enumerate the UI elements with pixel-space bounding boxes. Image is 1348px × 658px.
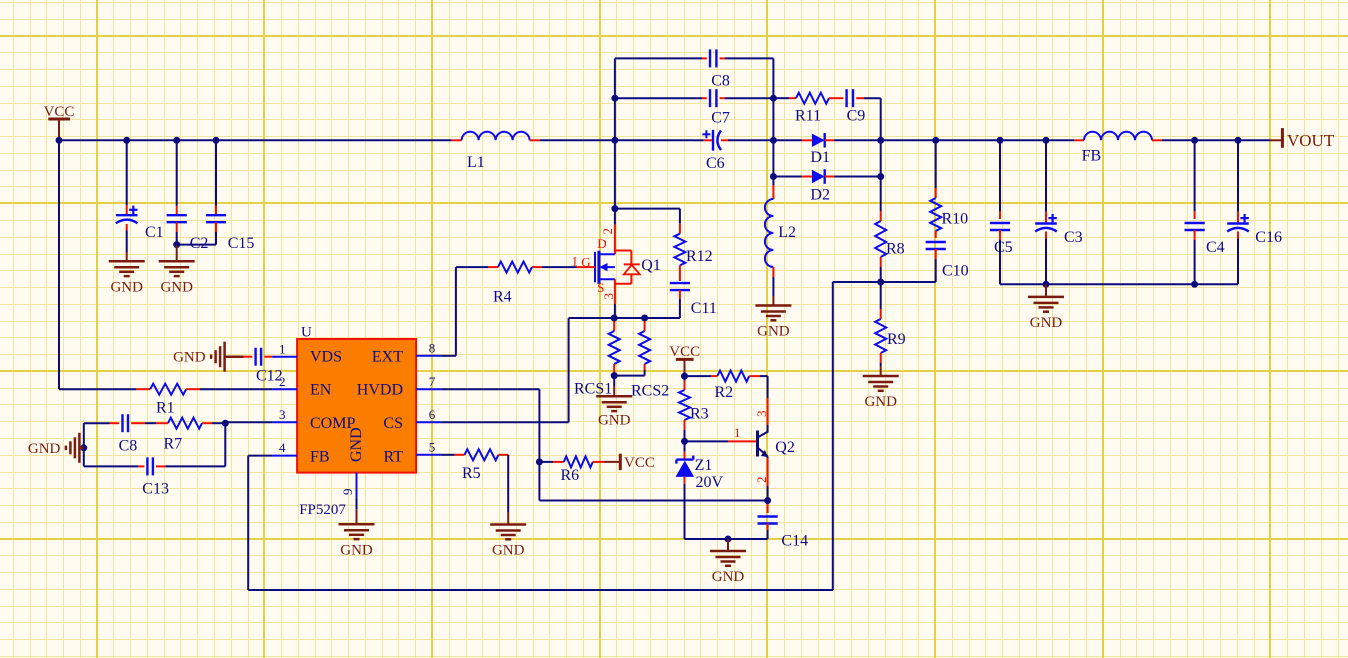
- wire R11 left stub: [789, 97, 796, 99]
- wire rail D1 node to R10: [881, 139, 936, 141]
- node D1 cathode: [877, 137, 884, 144]
- capacitor C3: [1035, 214, 1082, 246]
- resistor R3: [679, 390, 709, 423]
- wire C10 bottom pin: [935, 249, 937, 282]
- ground GND C1: [109, 252, 145, 295]
- svg-text:3: 3: [279, 407, 286, 422]
- wire drain to R12: [615, 209, 680, 224]
- svg-text:3: 3: [601, 293, 616, 300]
- wire C7 row right: [725, 97, 773, 99]
- ground GND L2: [755, 296, 791, 340]
- svg-text:GND: GND: [160, 279, 193, 295]
- node C2 top: [173, 137, 180, 144]
- node VCC R2 R3: [681, 373, 688, 380]
- svg-text:EN: EN: [310, 382, 332, 399]
- wire R4 to gate: [542, 266, 577, 268]
- power VOUT: [1270, 128, 1335, 150]
- ic pin 4 FB: [272, 440, 297, 455]
- wire Q1 gate stub: [577, 266, 596, 268]
- wire L1 to Q1 drain node: [540, 139, 615, 141]
- wire C11 bottom pin: [645, 290, 680, 318]
- ic pin 5 RT: [416, 439, 441, 454]
- node COMP: [222, 420, 229, 427]
- wire rail C4 to C16: [1195, 139, 1238, 141]
- diode D1: [810, 133, 830, 166]
- wire R7 right stub: [202, 422, 225, 424]
- svg-text:C7: C7: [711, 110, 730, 127]
- ic pin 3 COMP: [272, 407, 297, 422]
- ic pin 9 GND: [340, 473, 357, 498]
- wire FB to C4: [1162, 139, 1195, 141]
- capacitor C13: [142, 457, 169, 497]
- wire R5 right stub: [499, 454, 509, 456]
- ic U FP5207 body: [297, 325, 416, 519]
- wire R5 to gnd: [507, 455, 509, 512]
- ground GND Q2: [710, 539, 746, 585]
- wire rail to C6: [615, 139, 693, 141]
- wire rail R10 to C5: [936, 139, 1000, 141]
- wire Z1 top stub: [684, 441, 686, 458]
- svg-text:R6: R6: [561, 467, 580, 484]
- node C7 left: [611, 95, 618, 102]
- resistor RCS1: [574, 331, 620, 398]
- svg-text:HVDD: HVDD: [357, 382, 403, 399]
- capacitor C2: [167, 215, 209, 252]
- ground GND output: [1028, 284, 1064, 331]
- node C3 top: [1043, 137, 1050, 144]
- wire L1 left stub: [452, 139, 462, 141]
- wire EXT riser: [441, 267, 488, 356]
- wire D1 to node: [834, 139, 881, 141]
- svg-text:RCS2: RCS2: [631, 383, 669, 400]
- svg-text:R11: R11: [795, 108, 821, 125]
- wire R2 left stub: [685, 375, 718, 377]
- wire C5 bottom pin: [999, 230, 1001, 284]
- wire Z1 bottom stub: [684, 477, 686, 539]
- svg-text:4: 4: [279, 440, 286, 455]
- wire C3 top pin: [1045, 140, 1047, 223]
- svg-text:VOUT: VOUT: [1287, 131, 1335, 150]
- wire R11 right stub: [829, 97, 843, 99]
- wire C8 left stub: [702, 57, 707, 59]
- wire C3 bottom pin: [1045, 232, 1047, 285]
- resistor RCS2: [631, 331, 669, 400]
- svg-text:GND: GND: [757, 324, 790, 340]
- capacitor C8 top: [710, 49, 730, 89]
- wire FB right stub: [1152, 139, 1162, 141]
- wire R10 to C10: [935, 231, 937, 238]
- resistor R1: [150, 384, 186, 417]
- svg-text:U: U: [301, 325, 312, 341]
- svg-text:C16: C16: [1255, 229, 1282, 246]
- resistor R10: [930, 198, 968, 231]
- wire Q1 drain red: [614, 209, 616, 255]
- wire D1 node up: [772, 98, 774, 140]
- node C16 top: [1235, 137, 1242, 144]
- svg-text:C13: C13: [142, 481, 169, 498]
- wire Q2 collector lead: [754, 376, 769, 432]
- node C1 top: [123, 137, 130, 144]
- svg-text:EXT: EXT: [372, 348, 403, 365]
- svg-text:1: 1: [279, 341, 286, 356]
- wire R8 bottom stub: [880, 257, 882, 282]
- ic pin 1 VDS: [272, 341, 297, 356]
- svg-text:6: 6: [429, 407, 436, 422]
- wire comp left rail: [83, 423, 85, 466]
- svg-text:Z1: Z1: [695, 457, 713, 474]
- wire R11 lead: [773, 97, 789, 99]
- wire R3 top stub: [684, 376, 686, 390]
- ground GND R5: [490, 512, 526, 559]
- capacitor C1: [116, 206, 164, 241]
- transistor Q2: [758, 431, 795, 458]
- wire R6 left stub: [539, 461, 563, 463]
- wire C1 top pin: [126, 140, 128, 215]
- ground GND comp: [28, 433, 84, 463]
- wire C13 left stub: [84, 465, 145, 467]
- svg-text:FB: FB: [310, 448, 330, 465]
- svg-text:R2: R2: [715, 384, 734, 401]
- ground GND C2: [159, 245, 195, 296]
- wire D2 anode lead: [773, 176, 802, 178]
- wire D1 anode stub: [802, 139, 812, 141]
- node VCC rail junction: [56, 137, 63, 144]
- ground GND RCS: [596, 376, 632, 429]
- node Q1 drain: [611, 205, 618, 212]
- wire R1 left stub: [136, 388, 150, 390]
- resistor R5: [462, 449, 499, 482]
- wire C6 to D1 node: [728, 139, 773, 141]
- svg-text:VCC: VCC: [669, 344, 700, 360]
- inductor L1: [462, 132, 530, 171]
- ic pin 7 HVDD: [416, 374, 441, 389]
- wire CS riser: [569, 318, 615, 422]
- wire C6 left stub: [693, 139, 713, 141]
- node emitter C14: [764, 497, 771, 504]
- svg-text:RT: RT: [384, 448, 404, 465]
- svg-text:R12: R12: [686, 248, 713, 265]
- wire RCS1 bottom stub: [613, 364, 615, 376]
- svg-text:C8: C8: [119, 438, 138, 455]
- wire D1 cathode stub: [825, 139, 834, 141]
- node C7 right: [770, 95, 777, 102]
- svg-text:L1: L1: [467, 154, 485, 171]
- ground GND pin9: [339, 498, 375, 559]
- wire C8b left stub: [84, 422, 119, 424]
- wire output bottom rail: [1000, 283, 1238, 285]
- wire D2 anode stub: [802, 176, 812, 178]
- wire Q2 base lead: [685, 425, 757, 441]
- ic pin 2 EN: [272, 374, 297, 389]
- ic pin 8 EXT: [416, 340, 441, 355]
- wire CS pin: [441, 421, 568, 423]
- svg-text:RCS1: RCS1: [574, 381, 612, 398]
- svg-text:1: 1: [572, 253, 579, 268]
- wire R1 right stub: [186, 388, 200, 390]
- svg-text:C10: C10: [942, 263, 969, 280]
- svg-text:C11: C11: [691, 300, 717, 317]
- node R10 top: [932, 137, 939, 144]
- wire C2 top pin: [176, 140, 178, 215]
- wire C12 left stub: [244, 356, 253, 358]
- svg-text:C1: C1: [145, 224, 164, 241]
- wire rail to VOUT: [1238, 139, 1270, 141]
- wire source row: [614, 317, 644, 319]
- svg-text:1: 1: [734, 425, 741, 440]
- wire C4 top pin: [1194, 140, 1196, 219]
- svg-text:GND: GND: [1030, 315, 1063, 331]
- transistor Q1: [572, 228, 661, 304]
- wire C12 right stub: [264, 356, 272, 358]
- wire R4 left stub: [488, 266, 498, 268]
- wire R9 top stub: [880, 282, 882, 319]
- svg-text:GND: GND: [598, 412, 631, 428]
- svg-text:GND: GND: [340, 542, 373, 558]
- node output gnd: [1043, 281, 1050, 288]
- power VCC R6: [604, 454, 655, 471]
- node RCS join: [611, 372, 618, 379]
- wire R5 left stub: [441, 454, 464, 456]
- wire R6 right stub: [593, 461, 604, 463]
- wire rail C5 to C3: [1000, 139, 1046, 141]
- diode D2: [810, 169, 830, 203]
- svg-text:GND: GND: [173, 350, 206, 366]
- wire C8 right stub: [720, 57, 725, 59]
- node C15 top: [213, 137, 220, 144]
- resistor R12: [674, 234, 712, 266]
- wire R8 column: [880, 140, 882, 176]
- resistor R11: [795, 93, 829, 125]
- svg-text:GND: GND: [712, 569, 745, 585]
- wire C14 top stub: [767, 501, 769, 514]
- power VCC input: [44, 104, 75, 140]
- svg-text:Q1: Q1: [641, 257, 661, 274]
- resistor R2: [715, 371, 750, 401]
- wire D2 cathode stub: [825, 176, 834, 178]
- resistor R7: [164, 418, 203, 453]
- capacitor C16: [1227, 214, 1282, 246]
- wire RCS2 top stub: [644, 318, 646, 331]
- wire C8 row right: [725, 58, 773, 98]
- wire left column up to C8: [614, 58, 616, 140]
- wire C7 row left: [615, 97, 702, 99]
- wire L2 top stub: [772, 177, 774, 200]
- node Q1 drain column on rail: [611, 137, 618, 144]
- wire C14 bottom stub: [767, 524, 769, 540]
- wire C7 right stub: [720, 97, 725, 99]
- wire rail C3 to FB: [1046, 139, 1074, 141]
- ground GND R9: [863, 366, 899, 410]
- svg-text:C5: C5: [994, 239, 1013, 256]
- wire VCC rail to L1: [59, 139, 452, 141]
- wire C2 bottom pin: [176, 223, 178, 245]
- svg-text:R1: R1: [156, 400, 175, 417]
- svg-text:D1: D1: [810, 149, 830, 166]
- wire R12 top stub: [679, 224, 681, 234]
- svg-text:C4: C4: [1206, 239, 1225, 256]
- wire R9 bottom stub: [880, 353, 882, 366]
- wire C8b right stub: [131, 422, 156, 424]
- svg-text:FB: FB: [1082, 148, 1102, 165]
- node D2 cathode / R8 top: [877, 173, 884, 180]
- wire R1 to pin2: [200, 388, 272, 390]
- wire source row to C11: [645, 317, 680, 319]
- svg-text:5: 5: [429, 439, 436, 454]
- wire R4 right stub: [532, 266, 542, 268]
- svg-text:R4: R4: [493, 289, 512, 306]
- wire C16 top pin: [1237, 140, 1239, 223]
- wire C6 right stub: [721, 139, 728, 141]
- wire node row to C10: [833, 281, 936, 283]
- wire L2 bottom stub: [772, 267, 774, 296]
- wire L1 right stub: [530, 139, 540, 141]
- svg-text:R3: R3: [690, 406, 709, 423]
- svg-text:VCC: VCC: [44, 104, 75, 120]
- svg-text:S: S: [597, 280, 604, 295]
- svg-text:VCC: VCC: [624, 455, 655, 471]
- svg-text:C8: C8: [711, 73, 730, 90]
- svg-text:C12: C12: [256, 368, 283, 385]
- wire C7 left stub: [702, 97, 707, 99]
- node Q1 source / RCS1: [611, 315, 618, 322]
- wire RCS1 top stub: [613, 318, 615, 331]
- svg-text:C9: C9: [847, 108, 866, 125]
- svg-text:Q2: Q2: [775, 439, 795, 456]
- svg-text:7: 7: [429, 374, 436, 389]
- svg-text:C3: C3: [1064, 229, 1083, 246]
- wire R3 bottom stub: [684, 420, 686, 441]
- node Q2 base / Z1: [681, 438, 688, 445]
- svg-text:CS: CS: [383, 415, 403, 432]
- wire Q2 gnd rail: [685, 538, 768, 540]
- svg-text:D: D: [597, 236, 606, 251]
- capacitor C10: [926, 242, 969, 280]
- node gnd rail: [725, 536, 732, 543]
- capacitor C11: [670, 283, 717, 317]
- wire RCS2 bottom: [614, 364, 644, 376]
- svg-text:9: 9: [340, 489, 355, 496]
- svg-text:GND: GND: [28, 441, 61, 457]
- svg-text:R8: R8: [886, 241, 905, 258]
- wire Q1 source to node: [614, 304, 616, 318]
- capacitor C14: [758, 517, 809, 550]
- wire D2 to node: [834, 176, 881, 178]
- svg-text:C6: C6: [706, 155, 725, 172]
- wire C9 to corner: [864, 98, 881, 140]
- wire C13 right stub: [156, 423, 225, 466]
- wire COMP node to pin3: [225, 421, 272, 423]
- inductor L2: [765, 199, 796, 267]
- node L2 top / D2 anode: [770, 173, 777, 180]
- wire C4 bottom pin: [1194, 230, 1196, 284]
- capacitor C5: [990, 223, 1013, 256]
- svg-text:R10: R10: [942, 211, 969, 228]
- node C4 bottom: [1191, 281, 1198, 288]
- node C2 C15 join: [173, 241, 180, 248]
- power VCC Q2: [669, 344, 700, 376]
- capacitor C9: [847, 89, 866, 124]
- svg-text:VDS: VDS: [310, 348, 342, 365]
- capacitor C4: [1185, 223, 1225, 256]
- node C4 top: [1191, 137, 1198, 144]
- svg-text:C15: C15: [228, 235, 255, 252]
- wire D1 anode lead: [773, 139, 802, 141]
- wire FB left stub: [1074, 139, 1084, 141]
- ferrite bead FB: [1082, 132, 1152, 165]
- svg-text:R5: R5: [462, 465, 481, 482]
- svg-text:L2: L2: [778, 224, 796, 241]
- wire C15 bottom pin: [177, 223, 216, 245]
- svg-text:FP5207: FP5207: [299, 502, 346, 518]
- svg-text:GND: GND: [864, 394, 897, 410]
- svg-text:8: 8: [429, 340, 436, 355]
- node D1 anode column: [770, 137, 777, 144]
- wire R8 top stub: [880, 177, 882, 222]
- wire FB pin loop: [248, 282, 881, 590]
- svg-text:20V: 20V: [696, 474, 724, 491]
- svg-text:R7: R7: [164, 436, 183, 453]
- wire Q2 emitter lead: [754, 456, 769, 500]
- ground GND C12: [173, 342, 243, 372]
- wire C1 bottom pin: [126, 224, 128, 252]
- wire C16 bottom pin: [1237, 232, 1239, 285]
- wire R7 left stub: [156, 422, 168, 424]
- zener Z1: [676, 456, 724, 491]
- wire D1-D2 column: [772, 140, 774, 176]
- svg-text:C14: C14: [781, 533, 808, 550]
- node C5 top: [997, 137, 1004, 144]
- wire HVDD run: [441, 389, 767, 500]
- wire VCC drop: [59, 140, 136, 389]
- capacitor C15: [206, 215, 254, 252]
- capacitor C7: [710, 89, 730, 126]
- svg-text:C2: C2: [190, 235, 209, 252]
- node comp gnd: [80, 444, 87, 451]
- svg-text:D2: D2: [810, 187, 830, 204]
- svg-text:GND: GND: [348, 427, 365, 462]
- svg-text:GND: GND: [492, 543, 525, 559]
- wire drain node down: [614, 140, 616, 208]
- svg-text:2: 2: [600, 228, 615, 235]
- node R8 R9 C10 FB: [877, 279, 884, 286]
- wire C8 row left: [615, 57, 702, 59]
- wire C9 right stub: [856, 97, 864, 99]
- svg-text:2: 2: [754, 477, 769, 484]
- svg-text:R9: R9: [887, 331, 906, 348]
- resistor R9: [875, 319, 905, 353]
- wire C15 top pin: [215, 140, 217, 215]
- resistor R8: [875, 221, 904, 258]
- wire R12 bottom stub: [679, 265, 681, 281]
- resistor R4: [493, 262, 532, 306]
- node R6: [536, 458, 543, 465]
- wire R10 top lead: [935, 140, 937, 198]
- capacitor C12: [256, 348, 283, 385]
- resistor R6: [561, 456, 593, 484]
- node RCS2 top: [641, 315, 648, 322]
- wire C5 top pin: [999, 140, 1001, 219]
- wire R2 right stub: [749, 375, 767, 377]
- svg-text:GND: GND: [110, 279, 143, 295]
- capacitor C8 comp: [119, 414, 138, 454]
- capacitor C6: [702, 130, 724, 172]
- svg-text:3: 3: [754, 411, 769, 418]
- ic pin 6 CS: [416, 407, 441, 422]
